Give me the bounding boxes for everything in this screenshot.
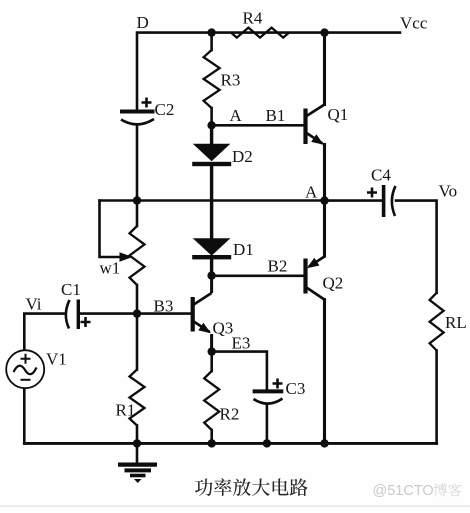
svg-text:R2: R2 <box>220 405 240 424</box>
resistor R2 <box>204 371 219 430</box>
svg-text:A: A <box>305 183 318 202</box>
node w1 top <box>133 196 141 204</box>
wire R3 stubs <box>210 33 213 50</box>
wire node A to C4 <box>325 199 384 202</box>
wire C1 right plate to B3 node <box>79 312 138 315</box>
svg-text:A: A <box>230 106 243 125</box>
potentiometer w1 wiper arrow <box>120 252 133 262</box>
wire D1 cathode node to Q2 base <box>212 274 306 277</box>
svg-text:R4: R4 <box>243 9 263 28</box>
node R3 top rail <box>207 28 215 36</box>
capacitor C2 <box>120 98 155 125</box>
wire Vi input corner <box>24 314 64 351</box>
svg-text:Q2: Q2 <box>323 274 344 293</box>
svg-text:D1: D1 <box>233 240 254 259</box>
wire potentiometer wiper loop <box>100 201 122 258</box>
node C3 bottom <box>263 439 271 447</box>
svg-text:Vo: Vo <box>439 182 458 201</box>
svg-text:RL: RL <box>445 313 467 332</box>
resistor R1 <box>130 370 145 426</box>
svg-text:C2: C2 <box>155 100 175 119</box>
wire Q1 emitter down to node A <box>323 145 326 201</box>
node B3 <box>133 309 141 317</box>
source V1 <box>6 350 44 388</box>
svg-text:Vi: Vi <box>26 295 42 314</box>
svg-text:C1: C1 <box>61 280 81 299</box>
svg-text:Q1: Q1 <box>328 105 349 124</box>
wire bottom rail <box>24 442 436 445</box>
svg-text:V1: V1 <box>46 350 67 369</box>
wire w1 top stub <box>136 201 139 227</box>
node R2 bottom <box>208 439 216 447</box>
svg-text:w1: w1 <box>100 259 121 278</box>
svg-text:@51CTO: @51CTO <box>373 483 434 499</box>
svg-text:B2: B2 <box>268 257 288 276</box>
wire diode string column <box>210 125 213 144</box>
svg-text:E3: E3 <box>232 334 251 353</box>
wire C3 bottom to rail <box>266 405 269 444</box>
resistor R3 <box>204 50 220 108</box>
capacitor C4 <box>367 185 396 217</box>
wire C2 bottom to node at y=200 <box>136 126 139 201</box>
frame edge bottom <box>0 505 470 507</box>
diode D1 <box>192 238 231 259</box>
transistor Q2 <box>306 257 325 300</box>
wire Q3 emitter node E3 loop to C3 <box>212 352 267 391</box>
svg-text:B3: B3 <box>154 297 174 316</box>
wire R2 stubs <box>210 352 213 371</box>
svg-text:B1: B1 <box>266 106 286 125</box>
svg-text:R1: R1 <box>116 401 136 420</box>
node E3 <box>208 347 216 355</box>
svg-text:D: D <box>137 13 149 32</box>
wire top rail D to Vcc <box>137 33 400 111</box>
transistor Q3 <box>193 276 212 352</box>
svg-text:C3: C3 <box>286 379 306 398</box>
node Q2 collector bottom <box>320 439 328 447</box>
wire node A to Q1 base <box>212 124 306 127</box>
capacitor C1 <box>66 300 91 330</box>
svg-text:Q3: Q3 <box>213 319 234 338</box>
wire Q2 emitter from node A <box>323 201 326 256</box>
node Q1 collector rail <box>320 28 328 36</box>
wire RL bottom to rail <box>435 351 438 444</box>
node D1 cathode <box>207 271 215 279</box>
resistor RL <box>430 293 444 351</box>
wire Q2 collector down to rail <box>323 300 326 444</box>
ground <box>118 443 157 483</box>
node A output <box>320 196 328 204</box>
svg-text:C4: C4 <box>371 166 391 185</box>
svg-text:R3: R3 <box>221 71 241 90</box>
potentiometer w1 track <box>130 226 145 285</box>
wire R1 stubs <box>136 314 139 370</box>
node ground rail <box>133 439 141 447</box>
svg-text:Vcc: Vcc <box>400 14 428 33</box>
resistor R4 <box>231 28 289 38</box>
wire w1 bottom stub to B3 <box>136 285 139 314</box>
wire V1 bottom to ground rail <box>23 388 26 443</box>
caption 功率放大电路 <box>195 478 308 496</box>
transistor Q1 <box>306 105 325 145</box>
node A bias top <box>207 121 215 129</box>
wire B3 base wire to Q3 <box>137 312 193 315</box>
svg-text:D2: D2 <box>232 147 253 166</box>
watermark @51CTO博客 <box>373 483 462 499</box>
diode D2 <box>192 144 231 166</box>
wire Q1 collector from top rail <box>323 33 326 105</box>
capacitor C3 <box>253 379 284 404</box>
wire horizontal net y=200 <box>100 199 325 202</box>
wire C4 to Vo corner and down to RL <box>396 201 437 293</box>
